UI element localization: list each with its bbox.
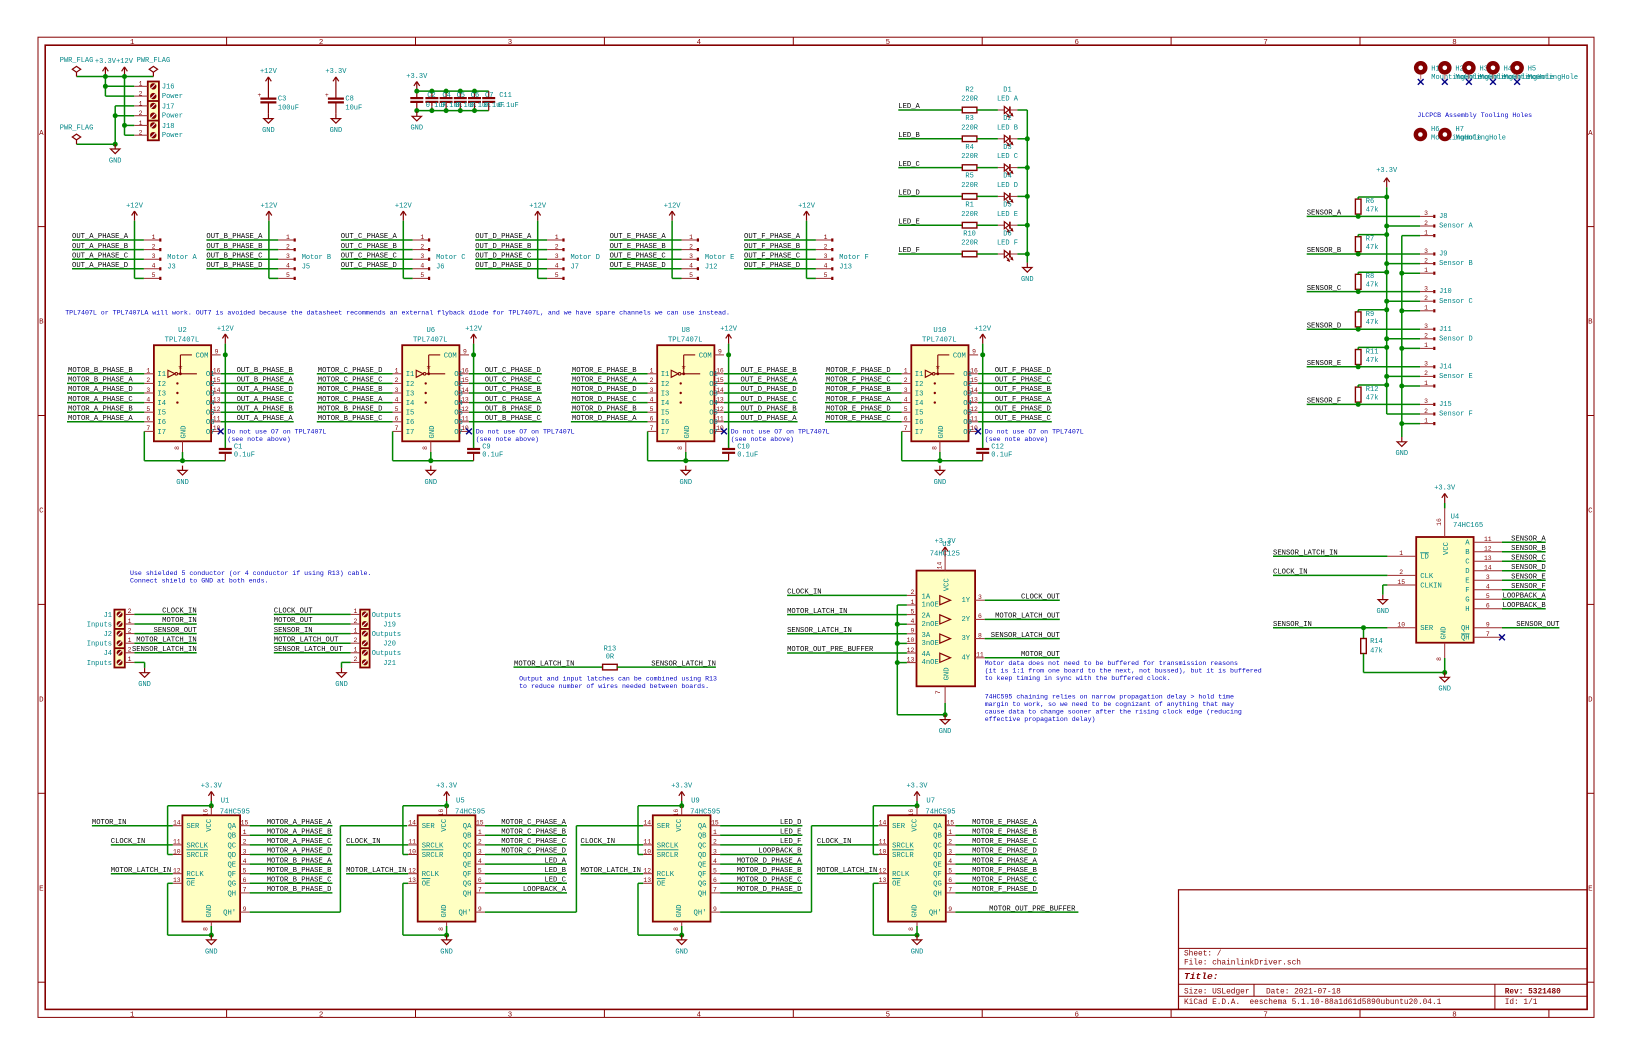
svg-text:14: 14 — [408, 820, 416, 827]
svg-text:GND: GND — [934, 479, 947, 487]
svg-text:6: 6 — [478, 877, 482, 884]
svg-text:15: 15 — [711, 820, 719, 827]
svg-text:C12: C12 — [991, 444, 1004, 452]
svg-text:Power: Power — [162, 112, 183, 120]
svg-text:14: 14 — [879, 820, 887, 827]
svg-text:Sensor D: Sensor D — [1439, 335, 1473, 343]
svg-text:GND: GND — [1438, 686, 1451, 694]
svg-text:J14: J14 — [1439, 363, 1452, 371]
svg-text:CLOCK_IN: CLOCK_IN — [817, 838, 852, 846]
svg-text:LOOPBACK_B: LOOPBACK_B — [758, 848, 802, 856]
svg-text:GND: GND — [262, 127, 275, 135]
svg-text:QG: QG — [933, 881, 942, 889]
svg-text:OUT_E_PHASE_D: OUT_E_PHASE_D — [610, 262, 666, 270]
svg-text:I3: I3 — [915, 390, 924, 398]
svg-text:OUT_A_PHASE_C: OUT_A_PHASE_C — [72, 252, 129, 260]
svg-text:SRCLK: SRCLK — [422, 842, 444, 850]
svg-text:SRCLK: SRCLK — [892, 842, 914, 850]
svg-text:SENSOR_OUT: SENSOR_OUT — [1516, 621, 1560, 629]
svg-text:SER: SER — [422, 823, 436, 831]
svg-text:2: 2 — [1424, 333, 1428, 340]
svg-text:220R: 220R — [961, 124, 979, 132]
svg-text:U8: U8 — [681, 327, 690, 335]
svg-text:+12V: +12V — [395, 202, 413, 210]
svg-text:LED_C: LED_C — [544, 877, 566, 885]
svg-text:Rev: 5321480: Rev: 5321480 — [1505, 989, 1561, 997]
svg-text:47k: 47k — [1370, 648, 1383, 656]
svg-text:TPL7407L: TPL7407L — [668, 336, 703, 344]
svg-text:QH': QH' — [223, 910, 236, 918]
svg-text:C7: C7 — [485, 92, 493, 100]
svg-text:QH: QH — [227, 890, 236, 898]
svg-text:5: 5 — [886, 1011, 890, 1019]
svg-text:MOTOR_E_PHASE_B: MOTOR_E_PHASE_B — [972, 829, 1037, 837]
svg-text:OUT_F_PHASE_A: OUT_F_PHASE_A — [744, 233, 801, 241]
svg-text:3: 3 — [689, 253, 693, 260]
svg-text:11: 11 — [976, 652, 984, 659]
svg-text:SER: SER — [1420, 625, 1434, 633]
svg-text:2: 2 — [139, 110, 143, 117]
svg-text:LED_B: LED_B — [544, 867, 566, 875]
svg-text:1: 1 — [128, 656, 132, 663]
svg-text:220R: 220R — [961, 211, 979, 219]
svg-text:9: 9 — [718, 349, 722, 356]
svg-text:10: 10 — [879, 848, 887, 855]
svg-text:QF: QF — [227, 871, 236, 879]
svg-text:GND: GND — [938, 426, 946, 439]
svg-text:QH: QH — [1461, 635, 1470, 643]
svg-text:220R: 220R — [961, 240, 979, 248]
svg-text:MOTOR_A_PHASE_D: MOTOR_A_PHASE_D — [68, 386, 133, 394]
svg-text:OUT_B_PHASE_C: OUT_B_PHASE_C — [206, 252, 263, 260]
svg-text:12: 12 — [1484, 546, 1492, 553]
svg-text:OUT_F_PHASE_A: OUT_F_PHASE_A — [995, 396, 1052, 404]
svg-text:3: 3 — [1424, 248, 1428, 255]
svg-text:5: 5 — [146, 406, 150, 413]
svg-text:SENSOR_A: SENSOR_A — [1511, 535, 1546, 543]
svg-text:7: 7 — [713, 887, 717, 894]
svg-text:12: 12 — [643, 868, 651, 875]
svg-text:A: A — [1588, 130, 1593, 138]
svg-text:LED_A: LED_A — [544, 857, 566, 865]
svg-text:SENSOR_C: SENSOR_C — [1511, 554, 1546, 562]
svg-text:MOTOR_LATCH_IN: MOTOR_LATCH_IN — [346, 867, 406, 875]
svg-text:+12V: +12V — [974, 325, 992, 333]
svg-text:3: 3 — [420, 253, 424, 260]
svg-text:MOTOR_E_PHASE_C: MOTOR_E_PHASE_C — [972, 838, 1037, 846]
svg-text:J12: J12 — [705, 264, 718, 272]
svg-text:2: 2 — [353, 656, 357, 663]
svg-text:MOTOR_B_PHASE_B: MOTOR_B_PHASE_B — [68, 367, 133, 375]
svg-text:OUT_C_PHASE_D: OUT_C_PHASE_D — [485, 367, 541, 375]
svg-text:MOTOR_C_PHASE_A: MOTOR_C_PHASE_A — [501, 819, 566, 827]
svg-text:F: F — [1465, 587, 1469, 595]
svg-text:CLOCK_IN: CLOCK_IN — [111, 838, 146, 846]
svg-text:C: C — [1588, 508, 1593, 516]
svg-text:QA: QA — [933, 823, 942, 831]
svg-text:QC: QC — [227, 842, 236, 850]
svg-text:1: 1 — [139, 120, 143, 127]
svg-text:3: 3 — [395, 387, 399, 394]
svg-text:QG: QG — [227, 881, 236, 889]
svg-text:9: 9 — [215, 349, 219, 356]
svg-text:1: 1 — [478, 829, 482, 836]
svg-text:J4: J4 — [104, 650, 112, 658]
svg-text:13: 13 — [408, 877, 416, 884]
svg-text:MOTOR_A_PHASE_B: MOTOR_A_PHASE_B — [267, 829, 332, 837]
svg-text:5: 5 — [689, 272, 693, 279]
svg-text:Sensor B: Sensor B — [1439, 260, 1473, 268]
svg-text:15: 15 — [241, 820, 249, 827]
svg-text:U6: U6 — [426, 327, 435, 335]
svg-text:Motor data does not need to be: Motor data does not need to be buffered … — [985, 660, 1238, 667]
svg-text:MOTOR_D_PHASE_C: MOTOR_D_PHASE_C — [737, 877, 802, 885]
svg-text:47k: 47k — [1366, 206, 1379, 214]
svg-text:9: 9 — [910, 628, 914, 635]
svg-text:Do not use O7 on TPL7407L: Do not use O7 on TPL7407L — [227, 429, 326, 436]
svg-text:1: 1 — [353, 647, 357, 654]
svg-text:SENSOR_IN: SENSOR_IN — [274, 627, 313, 635]
svg-text:2: 2 — [1424, 295, 1428, 302]
svg-text:C: C — [39, 508, 44, 516]
svg-text:OUT_E_PHASE_B: OUT_E_PHASE_B — [741, 367, 798, 375]
svg-text:5: 5 — [910, 608, 914, 615]
svg-text:I5: I5 — [661, 410, 670, 418]
svg-text:O7: O7 — [963, 429, 972, 437]
svg-text:12: 12 — [408, 868, 416, 875]
svg-text:MOTOR_E_PHASE_A: MOTOR_E_PHASE_A — [972, 819, 1037, 827]
svg-text:7: 7 — [1263, 1011, 1267, 1019]
svg-text:100uF: 100uF — [278, 105, 299, 113]
svg-text:C8: C8 — [345, 96, 353, 104]
svg-text:GND: GND — [138, 681, 151, 689]
svg-text:MOTOR_LATCH_OUT: MOTOR_LATCH_OUT — [274, 636, 339, 644]
svg-text:MOTOR_IN: MOTOR_IN — [92, 819, 127, 827]
svg-text:MOTOR_E_PHASE_D: MOTOR_E_PHASE_D — [826, 405, 891, 413]
svg-text:MOTOR_F_PHASE_B: MOTOR_F_PHASE_B — [972, 867, 1037, 875]
svg-text:U4: U4 — [1451, 514, 1460, 522]
svg-text:OUT_D_PHASE_A: OUT_D_PHASE_A — [475, 233, 532, 241]
svg-text:6: 6 — [146, 416, 150, 423]
svg-text:GND: GND — [429, 426, 437, 439]
svg-text:D4: D4 — [1003, 173, 1011, 181]
svg-text:SRCLR: SRCLR — [422, 852, 444, 860]
svg-text:10: 10 — [408, 848, 416, 855]
svg-text:CLK: CLK — [1420, 573, 1434, 581]
svg-text:3: 3 — [286, 253, 290, 260]
svg-text:14: 14 — [173, 820, 181, 827]
svg-text:74HC165: 74HC165 — [1453, 522, 1483, 530]
svg-text:GND: GND — [939, 728, 952, 736]
svg-text:+12V: +12V — [798, 202, 816, 210]
svg-text:13: 13 — [879, 877, 887, 884]
svg-text:VCC: VCC — [1443, 541, 1451, 555]
svg-text:QF: QF — [698, 871, 707, 879]
svg-text:GND: GND — [1395, 450, 1408, 458]
svg-text:to keep timing in sync with th: to keep timing in sync with the buffered… — [985, 675, 1171, 682]
svg-text:D: D — [1465, 568, 1469, 576]
svg-text:+: + — [258, 92, 262, 99]
svg-text:10: 10 — [1397, 622, 1405, 629]
svg-text:2: 2 — [478, 839, 482, 846]
svg-text:SENSOR_B: SENSOR_B — [1307, 247, 1342, 255]
svg-text:COM: COM — [699, 352, 712, 360]
svg-text:MOTOR_OUT_PRE_BUFFER: MOTOR_OUT_PRE_BUFFER — [787, 646, 874, 654]
svg-text:OUT_B_PHASE_D: OUT_B_PHASE_D — [206, 262, 262, 270]
svg-text:Do not use O7 on TPL7407L: Do not use O7 on TPL7407L — [985, 429, 1084, 436]
svg-text:RCLK: RCLK — [892, 871, 910, 879]
svg-text:CLOCK_IN: CLOCK_IN — [581, 838, 616, 846]
svg-text:MOTOR_B_PHASE_B: MOTOR_B_PHASE_B — [267, 867, 332, 875]
svg-text:D: D — [39, 697, 44, 705]
svg-text:1: 1 — [1424, 380, 1428, 387]
svg-text:I6: I6 — [157, 419, 166, 427]
svg-text:R2: R2 — [965, 86, 973, 94]
svg-text:1: 1 — [689, 234, 693, 241]
svg-text:LED_E: LED_E — [898, 218, 920, 226]
svg-text:JLCPCB Assembly Tooling Holes: JLCPCB Assembly Tooling Holes — [1417, 112, 1532, 119]
svg-text:2: 2 — [689, 243, 693, 250]
svg-text:OUT_F_PHASE_D: OUT_F_PHASE_D — [995, 367, 1051, 375]
svg-text:Outputs: Outputs — [372, 612, 401, 620]
svg-text:I5: I5 — [157, 410, 166, 418]
svg-text:2: 2 — [713, 839, 717, 846]
svg-text:(see note above): (see note above) — [476, 436, 539, 443]
svg-text:SENSOR_LATCH_IN: SENSOR_LATCH_IN — [1273, 549, 1338, 557]
svg-text:LOOPBACK_A: LOOPBACK_A — [523, 886, 567, 894]
svg-text:VCC: VCC — [912, 818, 920, 832]
svg-text:5: 5 — [395, 406, 399, 413]
svg-text:J10: J10 — [1439, 288, 1452, 296]
svg-text:OUT_B_PHASE_D: OUT_B_PHASE_D — [485, 405, 541, 413]
svg-text:4: 4 — [1486, 584, 1490, 591]
svg-text:C: C — [1465, 559, 1470, 567]
svg-text:C4: C4 — [442, 92, 450, 100]
svg-text:J20: J20 — [383, 641, 396, 649]
svg-text:J11: J11 — [1439, 326, 1452, 334]
svg-text:4: 4 — [243, 858, 247, 865]
svg-text:6: 6 — [1486, 603, 1490, 610]
svg-text:Title:: Title: — [1184, 971, 1219, 982]
svg-text:QD: QD — [698, 852, 707, 860]
svg-text:5: 5 — [948, 868, 952, 875]
svg-text:OUT_B_PHASE_A: OUT_B_PHASE_A — [206, 233, 263, 241]
svg-text:R1: R1 — [965, 202, 973, 210]
svg-text:4: 4 — [420, 263, 424, 270]
svg-text:R4: R4 — [965, 144, 973, 152]
svg-text:13: 13 — [907, 656, 915, 663]
svg-text:LED_C: LED_C — [898, 161, 920, 169]
svg-text:47k: 47k — [1366, 244, 1379, 252]
svg-text:2: 2 — [139, 130, 143, 137]
svg-text:1: 1 — [286, 234, 290, 241]
svg-text:D: D — [1588, 697, 1593, 705]
svg-text:6: 6 — [978, 613, 982, 620]
svg-text:I4: I4 — [661, 400, 670, 408]
svg-text:LED_A: LED_A — [898, 103, 920, 111]
svg-text:CLOCK_IN: CLOCK_IN — [162, 608, 197, 616]
svg-text:13: 13 — [1484, 555, 1492, 562]
svg-text:MOTOR_LATCH_IN: MOTOR_LATCH_IN — [787, 608, 847, 616]
svg-text:7: 7 — [395, 425, 399, 432]
svg-text:+3.3V: +3.3V — [906, 783, 928, 791]
svg-text:RCLK: RCLK — [422, 871, 440, 879]
svg-text:OUT_A_PHASE_B: OUT_A_PHASE_B — [72, 243, 129, 251]
svg-text:15: 15 — [476, 820, 484, 827]
svg-text:SENSOR_C: SENSOR_C — [1307, 285, 1342, 293]
svg-text:220R: 220R — [961, 153, 979, 161]
svg-text:LED_B: LED_B — [898, 132, 920, 140]
svg-text:MOTOR_E_PHASE_C: MOTOR_E_PHASE_C — [826, 415, 891, 423]
svg-text:J6: J6 — [436, 264, 444, 272]
svg-text:J19: J19 — [383, 621, 396, 629]
svg-text:4: 4 — [697, 39, 702, 47]
svg-text:1: 1 — [130, 39, 135, 47]
svg-text:O7: O7 — [206, 429, 215, 437]
svg-text:R13: R13 — [604, 645, 617, 653]
svg-text:C5: C5 — [457, 92, 465, 100]
svg-text:Do not use O7 on TPL7407L: Do not use O7 on TPL7407L — [731, 429, 830, 436]
svg-text:MOTOR_B_PHASE_C: MOTOR_B_PHASE_C — [267, 877, 332, 885]
svg-text:Size: USLedger: Size: USLedger — [1184, 989, 1250, 997]
svg-text:GND: GND — [675, 948, 688, 956]
svg-text:4: 4 — [478, 858, 482, 865]
svg-text:4: 4 — [689, 263, 693, 270]
svg-text:PWR_FLAG: PWR_FLAG — [60, 125, 94, 133]
svg-text:MOTOR_C_PHASE_D: MOTOR_C_PHASE_D — [318, 367, 383, 375]
svg-text:2: 2 — [910, 589, 914, 596]
svg-text:6: 6 — [1074, 39, 1078, 47]
svg-text:VCC: VCC — [943, 578, 951, 592]
svg-text:QA: QA — [227, 823, 236, 831]
svg-text:1: 1 — [353, 627, 357, 634]
svg-text:MOTOR_F_PHASE_D: MOTOR_F_PHASE_D — [972, 886, 1037, 894]
svg-text:0R: 0R — [606, 653, 615, 661]
svg-text:1: 1 — [1424, 342, 1428, 349]
svg-text:8: 8 — [438, 927, 445, 931]
svg-text:OUT_E_PHASE_B: OUT_E_PHASE_B — [610, 243, 667, 251]
svg-text:LOOPBACK_B: LOOPBACK_B — [1503, 602, 1547, 610]
svg-text:I1: I1 — [661, 371, 670, 379]
svg-text:I2: I2 — [157, 381, 166, 389]
svg-text:2: 2 — [1424, 257, 1428, 264]
svg-text:Use shielded 5 conductor (or 4: Use shielded 5 conductor (or 4 conductor… — [130, 570, 371, 577]
svg-text:7: 7 — [478, 887, 482, 894]
svg-text:J18: J18 — [162, 123, 175, 131]
svg-text:+12V: +12V — [217, 325, 235, 333]
svg-text:11: 11 — [173, 839, 181, 846]
svg-text:LOOPBACK_A: LOOPBACK_A — [1503, 592, 1547, 600]
svg-text:SER: SER — [657, 823, 671, 831]
svg-text:13: 13 — [643, 877, 651, 884]
svg-text:RCLK: RCLK — [186, 871, 204, 879]
svg-text:U9: U9 — [691, 798, 700, 806]
svg-text:MOTOR_A_PHASE_B: MOTOR_A_PHASE_B — [68, 405, 133, 413]
svg-text:MOTOR_E_PHASE_A: MOTOR_E_PHASE_A — [572, 377, 637, 385]
svg-text:3: 3 — [555, 253, 559, 260]
svg-text:6: 6 — [395, 416, 399, 423]
svg-text:U3: U3 — [942, 541, 951, 549]
svg-text:Motor C: Motor C — [436, 254, 465, 262]
svg-text:MOTOR_D_PHASE_D: MOTOR_D_PHASE_D — [572, 386, 637, 394]
svg-text:6: 6 — [650, 416, 654, 423]
svg-text:MOTOR_LATCH_OUT: MOTOR_LATCH_OUT — [995, 613, 1060, 621]
svg-text:MOTOR_B_PHASE_D: MOTOR_B_PHASE_D — [318, 405, 383, 413]
svg-text:1: 1 — [128, 618, 132, 625]
svg-text:Connect shield to GND at both: Connect shield to GND at both ends. — [130, 578, 269, 585]
svg-text:1: 1 — [420, 234, 424, 241]
svg-text:QB: QB — [463, 833, 472, 841]
svg-text:7: 7 — [146, 425, 150, 432]
svg-text:2: 2 — [146, 377, 150, 384]
svg-text:Sensor A: Sensor A — [1439, 223, 1473, 231]
svg-text:3A: 3A — [922, 632, 931, 640]
svg-text:MOTOR_LATCH_IN: MOTOR_LATCH_IN — [111, 867, 171, 875]
svg-text:4: 4 — [286, 263, 290, 270]
svg-text:CLOCK_OUT: CLOCK_OUT — [274, 608, 314, 616]
svg-text:12: 12 — [879, 868, 887, 875]
svg-text:3: 3 — [904, 387, 908, 394]
svg-text:OE: OE — [186, 881, 195, 889]
svg-text:J5: J5 — [302, 264, 310, 272]
svg-text:OUT_A_PHASE_C: OUT_A_PHASE_C — [237, 396, 294, 404]
svg-text:B: B — [1588, 319, 1593, 327]
svg-text:3: 3 — [152, 253, 156, 260]
svg-text:MOTOR_OUT: MOTOR_OUT — [1021, 651, 1061, 659]
svg-text:2: 2 — [128, 627, 132, 634]
svg-text:CLOCK_OUT: CLOCK_OUT — [1021, 593, 1061, 601]
svg-text:Motor D: Motor D — [571, 254, 600, 262]
svg-text:OUT_B_PHASE_C: OUT_B_PHASE_C — [485, 415, 542, 423]
svg-text:LED B: LED B — [997, 124, 1018, 132]
svg-text:TPL7407L: TPL7407L — [413, 336, 448, 344]
svg-text:I3: I3 — [661, 390, 670, 398]
svg-text:GND: GND — [1021, 276, 1034, 284]
svg-text:2: 2 — [904, 377, 908, 384]
svg-text:C3: C3 — [278, 96, 286, 104]
svg-text:2: 2 — [650, 377, 654, 384]
svg-text:OUT_D_PHASE_A: OUT_D_PHASE_A — [741, 415, 798, 423]
svg-text:MOTOR_F_PHASE_B: MOTOR_F_PHASE_B — [826, 386, 891, 394]
svg-text:File: chainlinkDriver.sch: File: chainlinkDriver.sch — [1184, 959, 1301, 967]
svg-text:3: 3 — [243, 848, 247, 855]
svg-text:4: 4 — [146, 396, 150, 403]
svg-text:(see note above): (see note above) — [731, 436, 794, 443]
svg-text:220R: 220R — [961, 182, 979, 190]
svg-text:TPL7407L: TPL7407L — [922, 336, 957, 344]
svg-text:Inputs: Inputs — [87, 641, 112, 649]
svg-text:MOTOR_F_PHASE_C: MOTOR_F_PHASE_C — [972, 877, 1037, 885]
svg-text:1: 1 — [130, 1011, 135, 1019]
svg-text:14: 14 — [643, 820, 651, 827]
svg-text:J13: J13 — [839, 264, 852, 272]
svg-text:4: 4 — [713, 858, 717, 865]
svg-text:+12V: +12V — [126, 202, 144, 210]
svg-text:QC: QC — [698, 842, 707, 850]
svg-text:QB: QB — [227, 833, 236, 841]
svg-text:220R: 220R — [961, 96, 979, 104]
svg-text:SENSOR_LATCH_IN: SENSOR_LATCH_IN — [787, 627, 852, 635]
svg-text:3: 3 — [650, 387, 654, 394]
svg-text:MOTOR_F_PHASE_A: MOTOR_F_PHASE_A — [972, 857, 1037, 865]
svg-text:GND: GND — [205, 948, 218, 956]
svg-text:MOTOR_F_PHASE_A: MOTOR_F_PHASE_A — [826, 396, 891, 404]
svg-text:MOTOR_A_PHASE_D: MOTOR_A_PHASE_D — [267, 848, 332, 856]
svg-text:11: 11 — [879, 839, 887, 846]
svg-text:0.1uF: 0.1uF — [737, 452, 758, 460]
svg-text:+12V: +12V — [664, 202, 682, 210]
svg-text:MountingHole: MountingHole — [1456, 135, 1506, 143]
